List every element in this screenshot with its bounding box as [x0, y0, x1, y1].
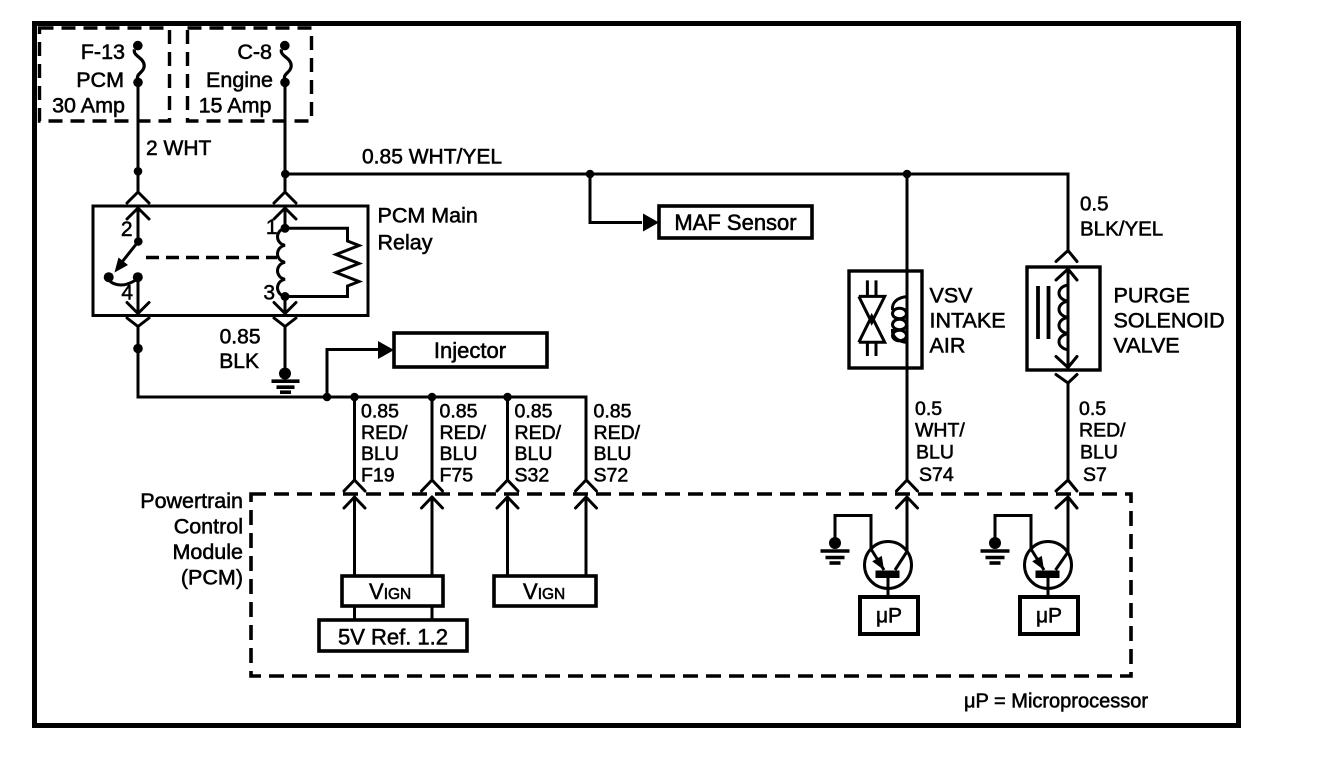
- MAF sensor box: [659, 206, 812, 238]
- svg-text:F-13: F-13: [81, 40, 125, 64]
- relay switch contact arm: [115, 237, 143, 272]
- svg-text:RED/: RED/: [1079, 420, 1126, 442]
- wire: branch F75: [431, 397, 434, 480]
- microprocessor box U2: [1020, 597, 1078, 634]
- node: branch F75 junction: [428, 393, 437, 402]
- svg-text:BLU: BLU: [515, 443, 553, 465]
- svg-text:RED/: RED/: [361, 422, 408, 444]
- VSV box: [849, 271, 922, 368]
- svg-text:F19: F19: [361, 464, 395, 486]
- wire: S72 into VIGN: [585, 497, 588, 576]
- svg-text:Module: Module: [172, 540, 243, 564]
- purge valve plates: [1038, 286, 1049, 339]
- relay internal resistor: [285, 228, 359, 296]
- label Powertrain Control Module (PCM): [140, 489, 243, 590]
- svg-text:0.85: 0.85: [361, 401, 399, 423]
- wire: purge feed down: [1067, 173, 1070, 251]
- svg-text:μP: μP: [876, 605, 902, 628]
- purge coil: [1059, 285, 1068, 350]
- svg-text:BLK/YEL: BLK/YEL: [1080, 218, 1163, 241]
- connector F75 at PCM boundary: [422, 480, 443, 508]
- wire: Q2 emitter lead: [995, 516, 1031, 550]
- injector box: [394, 333, 547, 367]
- svg-text:BLK: BLK: [219, 350, 259, 373]
- svg-text:RED/: RED/: [594, 422, 641, 444]
- 5V Ref box: [319, 620, 467, 651]
- wire: branch S72: [585, 396, 588, 481]
- wire: Q1 emitter lead: [835, 516, 871, 550]
- wire: main 0.85 WHT/YEL horizontal feed: [285, 173, 1070, 176]
- wire: purge to PCM: [1067, 383, 1070, 480]
- wire: F19 into VIGN: [353, 497, 356, 576]
- svg-text:15 Amp: 15 Amp: [199, 94, 272, 118]
- label 0.85 RED/BLU F19: [361, 401, 408, 487]
- svg-text:μP = Microprocessor: μP = Microprocessor: [964, 691, 1148, 713]
- svg-text:BLU: BLU: [916, 442, 954, 464]
- svg-text:S74: S74: [919, 464, 954, 486]
- svg-text:0.5: 0.5: [915, 398, 942, 420]
- wire: relay pin 1 lead: [284, 208, 287, 228]
- wire: relay pin 4 down and bottom rail: [138, 327, 586, 398]
- svg-text:0.85: 0.85: [594, 401, 632, 423]
- fuse F-13 symbol: [133, 41, 144, 87]
- svg-text:5V Ref. 1.2: 5V Ref. 1.2: [338, 625, 448, 650]
- svg-text:30 Amp: 30 Amp: [52, 94, 125, 118]
- label VSV INTAKE AIR: [930, 283, 1006, 357]
- svg-text:RED/: RED/: [515, 422, 562, 444]
- wire: VIGN to 5V Ref right: [431, 606, 434, 620]
- svg-text:C-8: C-8: [237, 40, 272, 64]
- svg-text:INTAKE: INTAKE: [930, 308, 1006, 332]
- wire: F75 into VIGN: [431, 497, 434, 576]
- label PCM Main Relay: [378, 204, 478, 255]
- svg-text:VALVE: VALVE: [1114, 333, 1180, 357]
- svg-text:AIR: AIR: [930, 333, 966, 357]
- svg-text:MAF Sensor: MAF Sensor: [674, 210, 796, 235]
- wire: branch S32: [506, 397, 509, 480]
- svg-text:PCM: PCM: [76, 68, 124, 92]
- connector S7 at PCM boundary: [1056, 480, 1077, 508]
- connector at relay pin 1: [274, 192, 296, 219]
- wire: VSV feed down: [906, 174, 909, 480]
- connector F19 at PCM boundary: [344, 480, 365, 508]
- svg-text:0.85 WHT/YEL: 0.85 WHT/YEL: [362, 146, 502, 169]
- wire: S32 into VIGN: [506, 497, 509, 576]
- ground (Q2 emitter): [981, 537, 1010, 563]
- svg-text:PURGE: PURGE: [1114, 283, 1190, 307]
- svg-text:0.5: 0.5: [1080, 193, 1109, 216]
- connector at relay pin 2: [127, 192, 149, 219]
- transistor Q1: [865, 542, 912, 598]
- relay coil: [278, 228, 286, 296]
- svg-text:2: 2: [121, 218, 133, 241]
- connector S74 at PCM boundary: [897, 480, 918, 508]
- wire: relay pin 3 to ground: [284, 327, 287, 371]
- label 0.5 WHT/BLU S74: [915, 398, 965, 486]
- splice dot on pin 4 wire: [133, 344, 143, 354]
- wire: relay pin 3 lead bottom: [284, 297, 287, 314]
- svg-text:0.85: 0.85: [220, 326, 261, 349]
- label PURGE SOLENOID VALVE: [1114, 283, 1225, 357]
- ground (relay pin 3): [272, 368, 300, 393]
- label 0.5 RED/BLU S7: [1079, 398, 1126, 486]
- connector at relay pin 3 bottom: [274, 303, 296, 327]
- connector S72 at PCM boundary: [576, 480, 597, 508]
- VSV valve symbol: [859, 280, 885, 356]
- svg-text:0.5: 0.5: [1079, 398, 1106, 420]
- wire: injector riser: [323, 341, 394, 401]
- wire: relay pin 4 lead: [137, 277, 140, 314]
- fuse C-8 label: [199, 40, 273, 118]
- wire: S7 to transistor Q2 collector: [1067, 497, 1070, 552]
- label 0.5 BLK/YEL: [1080, 193, 1163, 241]
- fuse F-13 label: [52, 40, 125, 118]
- svg-text:3: 3: [263, 282, 275, 305]
- wire: VIGN to 5V Ref left: [353, 606, 356, 620]
- fuse box F-13 (dashed): [40, 28, 170, 121]
- svg-text:0.85: 0.85: [440, 401, 478, 423]
- svg-text:Relay: Relay: [378, 231, 433, 255]
- svg-text:S32: S32: [515, 464, 550, 486]
- label 0.85 BLK: [219, 326, 260, 374]
- connector at relay pin 4 bottom: [127, 303, 149, 327]
- wire: branch F19: [353, 397, 356, 480]
- svg-text:PCM Main: PCM Main: [378, 204, 478, 228]
- svg-text:(PCM): (PCM): [181, 566, 243, 590]
- connector at purge box bottom: [1056, 357, 1077, 384]
- purge box: [1027, 267, 1100, 370]
- svg-text:Engine: Engine: [206, 68, 273, 92]
- svg-text:BLU: BLU: [440, 443, 478, 465]
- svg-text:Injector: Injector: [434, 338, 506, 363]
- VIGN box 2: [494, 576, 596, 606]
- node: branch F19 junction: [350, 393, 359, 402]
- svg-text:BLU: BLU: [361, 443, 399, 465]
- label 0.85 RED/BLU F75: [440, 401, 487, 487]
- label 0.85 RED/BLU S72: [594, 401, 641, 487]
- PCM dashed box: [251, 494, 1131, 676]
- svg-text:SOLENOID: SOLENOID: [1114, 308, 1225, 332]
- relay contact dots and travel arc: [104, 272, 143, 285]
- ground (Q1 emitter): [821, 537, 850, 563]
- relay box PCM Main Relay: [93, 206, 368, 316]
- svg-text:μP: μP: [1036, 605, 1062, 628]
- fuse box C-8 (dashed): [188, 28, 312, 121]
- wire: relay pin 2 lead: [137, 208, 140, 242]
- svg-text:S72: S72: [594, 464, 629, 486]
- svg-text:2 WHT: 2 WHT: [146, 137, 212, 160]
- svg-text:Control: Control: [174, 515, 243, 539]
- svg-text:Powertrain: Powertrain: [140, 489, 243, 513]
- node: relay pin 3: [281, 292, 290, 301]
- label 0.85 RED/BLU S32: [515, 401, 562, 487]
- transistor Q2: [1025, 542, 1072, 598]
- VSV coil: [892, 297, 907, 343]
- node: junction C-8 wire / main feed: [281, 170, 290, 179]
- node: VSV branch junction: [903, 170, 912, 179]
- splice dot on F-13 wire: [134, 167, 143, 176]
- node: branch S32 junction: [503, 393, 512, 402]
- svg-text:BLU: BLU: [1080, 442, 1118, 464]
- svg-text:0.85: 0.85: [515, 401, 553, 423]
- microprocessor box U1: [860, 597, 918, 634]
- node: relay pin 1: [281, 224, 290, 233]
- svg-text:RED/: RED/: [440, 422, 487, 444]
- wire: S74 to transistor Q1 collector: [906, 497, 909, 552]
- svg-text:1: 1: [266, 216, 278, 239]
- node: MAF branch junction: [586, 170, 595, 179]
- relay internal dashed divider: [146, 256, 277, 259]
- svg-text:F75: F75: [440, 464, 474, 486]
- svg-text:VSV: VSV: [930, 283, 974, 307]
- fuse C-8 symbol: [280, 41, 291, 87]
- wire: F-13 fuse to relay pin 2: [137, 84, 140, 193]
- connector at purge box top: [1056, 251, 1077, 281]
- svg-text:BLU: BLU: [594, 443, 632, 465]
- connector S32 at PCM boundary: [497, 480, 518, 508]
- svg-text:S7: S7: [1083, 464, 1107, 486]
- wire: purge coil lead: [1067, 269, 1070, 368]
- VIGN box 1: [342, 576, 443, 606]
- wire: C-8 fuse down to relay pin 1: [284, 82, 287, 193]
- svg-text:WHT/: WHT/: [915, 420, 965, 442]
- wire: MAF branch: [590, 174, 659, 232]
